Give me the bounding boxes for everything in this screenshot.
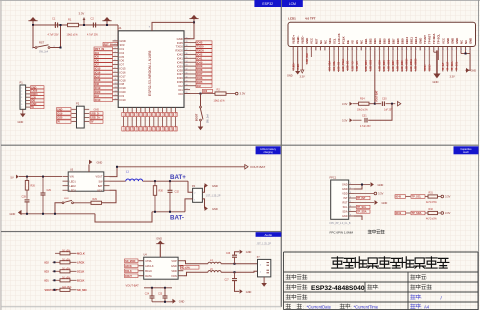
lcd wire DB5 [383, 50, 385, 72]
svg-text:IO37: IO37 [149, 126, 151, 130]
wire bat- to P4 pin1 [185, 199, 193, 212]
resistor R38 audio [60, 288, 70, 291]
svg-text:36: 36 [186, 53, 188, 55]
svg-text:29: 29 [186, 80, 188, 82]
svg-text:IO41: IO41 [167, 126, 169, 130]
svg-text:IO1: IO1 [45, 279, 50, 283]
esp32 left pin IO17 [113, 75, 119, 77]
svg-text:11: 11 [115, 79, 117, 81]
svg-text:SW_3x4: SW_3x4 [207, 113, 210, 123]
svg-text:IO20: IO20 [95, 90, 101, 94]
net port LCD_BLK [398, 102, 401, 106]
connector P2 pin left IO19 [72, 112, 77, 114]
wire gnd link to BAT- rail [95, 212, 152, 222]
esp32 bottom net labels lower row [122, 127, 125, 131]
port 3.3V boot [226, 93, 235, 95]
svg-text:GND: GND [212, 184, 218, 188]
ground c27 [240, 289, 243, 293]
svg-text:IO17: IO17 [95, 74, 101, 78]
svg-text:28: 28 [186, 84, 188, 86]
esp32 left pin IO20 [113, 91, 119, 93]
svg-text:IO38: IO38 [154, 126, 156, 130]
svg-text:C29: C29 [47, 189, 52, 192]
svg-text:LCD1: LCD1 [288, 17, 296, 21]
svg-text:DB1: DB1 [364, 38, 368, 44]
sheet border left [0, 0, 2, 310]
svg-text:IO44: IO44 [175, 126, 177, 130]
svg-text:BAT-: BAT- [170, 215, 184, 222]
svg-text:1kΩ ±5%: 1kΩ ±5% [62, 287, 71, 289]
esp32 bottom pin field [123, 107, 125, 112]
wire fpc gnd1 [354, 184, 370, 186]
net label TP_SDA [411, 211, 425, 215]
connector P1 pin IO0 [26, 100, 30, 102]
svg-text:3.3V: 3.3V [342, 119, 348, 123]
net label TP_SCL [411, 195, 425, 199]
ground P1 [22, 109, 24, 113]
net label IO5 [94, 55, 113, 59]
svg-text:USB_D-: USB_D- [91, 113, 100, 116]
lcd wire DB1 [365, 50, 367, 72]
svg-text:13: 13 [115, 87, 117, 89]
svg-text:R1: R1 [68, 18, 72, 22]
svg-text:TP_SDA: TP_SDA [451, 61, 454, 70]
svg-text:P1: P1 [20, 80, 24, 84]
esp32 right pin IO37 [184, 73, 190, 75]
svg-text:LRCLK: LRCLK [145, 264, 154, 268]
fpc pin SCL [349, 206, 354, 208]
svg-text:LCD_DB11: LCD_DB11 [411, 59, 413, 71]
tab Lithium battery charging [256, 146, 281, 154]
svg-text:IO3: IO3 [45, 270, 50, 274]
svg-text:LED3: LED3 [70, 189, 77, 192]
svg-text:VS: VS [351, 40, 355, 44]
esp32 top GND pin wire to power flag [152, 22, 194, 30]
svg-text:VCC: VCC [441, 38, 445, 44]
svg-text:3.3V: 3.3V [378, 192, 384, 196]
title row1 left [286, 275, 307, 280]
svg-text:VLED+: VLED+ [292, 35, 296, 44]
charger chip U3 body [68, 172, 104, 191]
wire fpc gnd8 [354, 216, 362, 220]
svg-text:TP_INT: TP_INT [357, 197, 366, 200]
svg-text:LRCK: LRCK [77, 261, 85, 265]
svg-text:LRCK: LRCK [125, 265, 132, 268]
wire BAT- rail [152, 211, 185, 213]
svg-text:VLED+: VLED+ [293, 62, 295, 70]
svg-text:32: 32 [186, 69, 188, 71]
svg-text:SD_MO: SD_MO [77, 288, 87, 292]
svg-text:VOUT-BAT: VOUT-BAT [126, 284, 140, 288]
svg-text:IO38: IO38 [197, 68, 203, 72]
svg-text:GND: GND [94, 108, 100, 111]
power flag PF1 [30, 17, 37, 21]
amp pin VON [178, 275, 183, 277]
svg-text:IO45: IO45 [136, 112, 138, 116]
svg-text:GND: GND [432, 80, 438, 84]
esp32 left pin IO1 [113, 48, 119, 50]
fpc pin GND [349, 215, 354, 217]
tab ESP32 [254, 0, 281, 7]
sheet border top [0, 0, 480, 2]
svg-text:LCD_DB7: LCD_DB7 [393, 60, 395, 71]
net label IO18 [94, 78, 113, 82]
connector P2 body [77, 106, 85, 128]
ground battery left rail [20, 213, 95, 215]
svg-text:LED1: LED1 [70, 180, 77, 183]
svg-text:ESP32-S3-WROOM-1-N16R8: ESP32-S3-WROOM-1-N16R8 [148, 50, 152, 96]
svg-text:IO2: IO2 [197, 84, 202, 88]
svg-text:GND: GND [446, 38, 450, 44]
svg-text:IO41: IO41 [197, 56, 203, 60]
svg-text:DATA: DATA [145, 274, 152, 278]
lcd wire LCD_VS [351, 50, 353, 71]
svg-text:27: 27 [186, 88, 188, 90]
svg-text:6: 6 [315, 49, 316, 51]
svg-text:IO16: IO16 [95, 70, 101, 74]
net label IO19 [94, 86, 113, 90]
svg-text:9: 9 [115, 71, 116, 73]
lcd wire 3.3V pin [301, 50, 303, 70]
net label IO15 [94, 67, 113, 71]
svg-text:C28: C28 [22, 196, 27, 199]
svg-text:DB3: DB3 [373, 38, 377, 44]
svg-text:DB8: DB8 [396, 38, 400, 44]
connector P1 pin GND [26, 86, 30, 88]
svg-text::: : [307, 295, 308, 300]
capacitor C32 [169, 181, 171, 190]
net label SD_MOD amp [125, 259, 139, 263]
svg-text:VOUT: VOUT [96, 176, 103, 179]
svg-text:IO39: IO39 [158, 126, 160, 130]
net label IO2 right [196, 84, 212, 88]
lcd wire TP_INT [442, 50, 444, 71]
svg-text:IO18: IO18 [95, 78, 101, 82]
svg-text:DB7: DB7 [391, 38, 395, 44]
lcd wire DB7 [392, 50, 394, 72]
svg-text:IO8: IO8 [95, 82, 100, 86]
svg-text:HS: HS [355, 40, 359, 44]
svg-text:IO48: IO48 [132, 126, 134, 130]
svg-text:SCLK: SCLK [77, 270, 84, 274]
title row3 left [286, 295, 307, 300]
svg-text:5: 5 [350, 201, 351, 203]
svg-text:IO39: IO39 [197, 64, 203, 68]
svg-text:R30: R30 [159, 190, 164, 193]
charger pin BAT [104, 185, 110, 187]
svg-text:39: 39 [186, 41, 188, 43]
lcd wire DB4 [378, 50, 380, 71]
svg-text:IO38: IO38 [154, 112, 156, 116]
svg-text::: : [426, 275, 427, 280]
svg-text:IO15: IO15 [95, 66, 101, 70]
svg-text:TXD0: TXD0 [197, 45, 204, 49]
svg-text:35: 35 [186, 57, 188, 59]
svg-text:TP-INT: TP-INT [423, 35, 427, 44]
esp32 right pin IO0 [184, 93, 190, 95]
amp chip U4 body [144, 257, 178, 279]
svg-text:BAT+: BAT+ [170, 174, 186, 181]
title row2 left [286, 285, 307, 290]
svg-text:0Ω ±5%: 0Ω ±5% [62, 268, 70, 270]
power flag PF2 [104, 17, 111, 21]
svg-text:C26: C26 [226, 253, 231, 255]
connector P2 pin right USB_D- [84, 112, 89, 114]
svg-text:IO0: IO0 [178, 92, 183, 96]
net label RXD0 right [196, 49, 212, 53]
svg-text:TP-SCL: TP-SCL [437, 34, 441, 44]
svg-text:LCD_VS: LCD_VS [352, 61, 354, 71]
svg-text:5V: 5V [31, 106, 34, 109]
svg-text:LCD_DB9: LCD_DB9 [402, 60, 404, 71]
svg-text:29: 29 [419, 49, 421, 51]
amp pin GND [178, 265, 183, 267]
svg-text:GND: GND [57, 108, 63, 111]
junction top right [193, 21, 195, 23]
esp32 bottom net labels upper row [122, 112, 125, 116]
ground P7 [263, 277, 265, 283]
svg-text:3.3V: 3.3V [300, 76, 305, 79]
charger pin VOUT [104, 176, 110, 178]
svg-text:RST: RST [314, 38, 318, 44]
power flag top right [191, 15, 198, 19]
svg-text:IO2: IO2 [45, 261, 50, 265]
svg-text:IO39: IO39 [158, 112, 160, 116]
svg-text:TP-SDA: TP-SDA [432, 34, 436, 44]
charger pin SW [104, 180, 110, 182]
title row4 paper [411, 304, 421, 309]
port 3.3V TP_SDA [441, 212, 444, 215]
svg-text:DOUT: DOUT [125, 275, 132, 278]
esp32 left pin IO4 [113, 52, 119, 54]
svg-text:6: 6 [21, 104, 22, 106]
svg-text:IO42: IO42 [171, 126, 173, 130]
svg-text:R2: R2 [217, 88, 221, 92]
wire fpc gnd2 [354, 185, 362, 190]
esp32 left pin IO5 [113, 56, 119, 58]
svg-text:4k7Ω ±5%: 4k7Ω ±5% [426, 218, 437, 220]
switch BOOT SW3 [200, 94, 202, 107]
svg-text:GND: GND [305, 38, 309, 44]
svg-text:IO42: IO42 [171, 112, 173, 116]
svg-text:TP_SDA: TP_SDA [357, 211, 367, 214]
wire von path [183, 272, 208, 276]
svg-text:GND: GND [455, 38, 459, 44]
svg-text:IO19: IO19 [95, 86, 101, 90]
title row3 page [411, 295, 421, 300]
svg-text:SW: SW [98, 180, 103, 183]
fpc pin INT [349, 197, 354, 199]
net label IO42 right [196, 53, 212, 57]
svg-text:30: 30 [186, 77, 188, 79]
resistor R31 audio [60, 261, 70, 264]
svg-text:IO40: IO40 [162, 126, 164, 130]
svg-text:R32: R32 [429, 208, 434, 211]
svg-text:14: 14 [115, 90, 117, 92]
port 3.3V fpc vdd [354, 193, 374, 195]
svg-text:12: 12 [115, 83, 117, 85]
svg-text:R34: R34 [360, 98, 365, 101]
esp32 right pin IO1 [184, 89, 190, 91]
svg-text:LCD_PCLK: LCD_PCLK [343, 58, 345, 71]
svg-text:8: 8 [350, 215, 351, 217]
svg-text:P2: P2 [76, 102, 80, 106]
svg-text:IO19: IO19 [57, 113, 63, 116]
svg-text:R31: R31 [429, 192, 434, 195]
svg-text:IO36: IO36 [145, 126, 147, 130]
connector P2 pin right 5V [84, 121, 89, 123]
esp32 left pin IO6 [113, 60, 119, 62]
svg-text:BCLK: BCLK [125, 270, 132, 273]
junction EN rail left [32, 24, 34, 26]
wire l4 to p7 [221, 263, 257, 265]
svg-text:LCD_DB4: LCD_DB4 [378, 59, 381, 70]
svg-text:5V: 5V [57, 121, 60, 124]
svg-text:VLED-: VLED- [298, 63, 300, 70]
company name chinese [332, 257, 449, 268]
svg-text:*CurrentTime: *CurrentTime [354, 304, 379, 309]
charger pin VIN [63, 176, 69, 178]
svg-text:CTRL: CTRL [145, 259, 152, 263]
svg-text:VON: VON [171, 274, 177, 278]
net label IO40 right [196, 60, 212, 64]
svg-text::: : [351, 304, 352, 309]
svg-text:TP_SCL: TP_SCL [457, 61, 459, 70]
title row2 file number [411, 285, 432, 290]
svg-text:LCD_CS: LCD_CS [339, 61, 341, 71]
svg-text:1: 1 [350, 183, 351, 185]
tab Capacitive touch [454, 146, 479, 154]
net label TP_SCL fpc [354, 206, 356, 208]
resistor R30 [154, 181, 156, 186]
svg-text:FPC_8P_1.0_CL_B: FPC_8P_1.0_CL_B [330, 222, 351, 225]
svg-text:SW2: SW2 [64, 198, 70, 200]
lcd wire TP_SDA [451, 50, 453, 71]
svg-text:LCD-CS: LCD-CS [337, 33, 341, 44]
net label IO39 right [196, 64, 212, 68]
svg-text:LCD_HS: LCD_HS [357, 61, 359, 71]
svg-text:3.3V: 3.3V [450, 76, 455, 79]
esp32 right pin IO2 [184, 85, 190, 87]
svg-text:GND: GND [419, 38, 423, 44]
svg-text:GND: GND [287, 75, 293, 78]
wire power flag to pin GND right [184, 22, 194, 38]
svg-text:LCD_DB12: LCD_DB12 [416, 58, 418, 71]
svg-text:GND: GND [171, 264, 177, 268]
svg-text:BOOT: BOOT [196, 113, 199, 121]
svg-text:SCL: SCL [332, 38, 336, 44]
svg-text:FPC 6PIN 1.0MM: FPC 6PIN 1.0MM [330, 231, 354, 235]
svg-text::: : [307, 285, 308, 290]
svg-text:IO47: IO47 [128, 112, 130, 116]
svg-text:DB14: DB14 [424, 64, 427, 71]
svg-text:INT: INT [343, 197, 348, 200]
ground charger top [88, 165, 90, 172]
svg-text:IO36: IO36 [145, 112, 147, 116]
charger pin LED1 [63, 180, 69, 182]
wire r29 to KEY [102, 190, 117, 203]
svg-text:8: 8 [324, 49, 325, 51]
svg-text:C31: C31 [362, 115, 367, 118]
svg-text:IO35: IO35 [197, 80, 203, 84]
esp32 right pin IO35 [184, 81, 190, 83]
svg-text:*CurrentDate: *CurrentDate [307, 304, 332, 309]
net label IO45 right [196, 41, 212, 45]
amp pin VOP [178, 260, 183, 262]
esp32 left pin IO19 [113, 87, 119, 89]
svg-text:I2C_SDA: I2C_SDA [329, 60, 332, 70]
fpc pin RST [349, 202, 354, 204]
svg-text:A4: A4 [424, 304, 430, 309]
svg-text:RST: RST [39, 40, 45, 44]
svg-text:GND: GND [382, 201, 388, 205]
svg-text:NC: NC [464, 40, 468, 44]
svg-text:GND: GND [179, 301, 185, 304]
lcd gnd heavy wire [436, 50, 438, 73]
svg-text:IO44: IO44 [175, 112, 177, 116]
esp32 left pin IO7 [113, 63, 119, 65]
charger pin KEY [104, 189, 110, 191]
net label TXD0 right [196, 45, 212, 49]
svg-text:IO40: IO40 [162, 112, 164, 116]
svg-text:RST_IN: RST_IN [104, 43, 113, 46]
wire lcd blk drop [374, 50, 376, 103]
svg-text:ESP32-4848S040: ESP32-4848S040 [311, 285, 365, 292]
wire RST switch to rail [50, 25, 61, 48]
amp pin DATA [139, 275, 144, 277]
net label RST_EN [103, 42, 118, 46]
svg-text:IO36: IO36 [197, 76, 203, 80]
lcd wire VLED- [297, 50, 299, 71]
svg-text:0Ω ±5%: 0Ω ±5% [62, 250, 70, 252]
lcd wire DB2 [369, 50, 371, 71]
ground lcd left [295, 71, 300, 75]
svg-text:4: 4 [350, 197, 351, 199]
net label IO35 right [196, 80, 212, 84]
svg-text:2: 2 [21, 91, 22, 93]
svg-text:DB11: DB11 [410, 37, 414, 44]
net label IO17 [94, 74, 113, 78]
connector P1 pin TXD0 [26, 90, 30, 92]
svg-text:VLED-: VLED- [296, 36, 300, 44]
junction 3.3V rail [83, 24, 85, 26]
svg-text:IO45: IO45 [197, 41, 203, 45]
ground fpc rst [354, 202, 374, 204]
svg-text:10kΩ ±1%: 10kΩ ±1% [67, 34, 79, 37]
connector P2 pin left GND [72, 108, 77, 110]
net port VOUT-BAT [245, 165, 248, 169]
resistor R26 [26, 177, 28, 181]
lcd wire DB6 [387, 50, 389, 71]
svg-text:IO42: IO42 [197, 52, 203, 56]
resistor R29 [73, 202, 91, 204]
esp32 right pin IO36 [184, 77, 190, 79]
svg-text:5V: 5V [11, 175, 14, 179]
svg-text:U1: U1 [118, 26, 122, 30]
net label IO3 [94, 94, 113, 98]
net label IO10 [94, 98, 113, 102]
wire EN drop to chip [117, 25, 119, 44]
svg-text:LCD_DB2: LCD_DB2 [370, 59, 372, 70]
svg-text:DB4: DB4 [378, 38, 382, 44]
svg-text:2: 2 [115, 43, 116, 45]
svg-text:FPC1: FPC1 [330, 176, 337, 180]
svg-text:IO10: IO10 [120, 98, 127, 102]
svg-text:4.0 TFT: 4.0 TFT [305, 17, 316, 21]
esp32 left pin IO10 [113, 99, 119, 101]
svg-text:GND: GND [468, 38, 472, 44]
svg-text:R29: R29 [93, 198, 98, 201]
